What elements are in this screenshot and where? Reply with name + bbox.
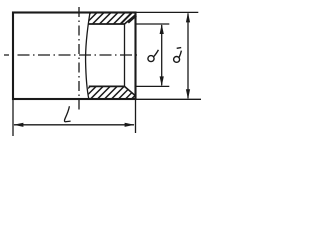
L extension line right (135, 99, 137, 133)
label L (64, 106, 70, 121)
L extension line left (12, 99, 14, 136)
d arrow down (160, 76, 164, 86)
break line (local section boundary) (86, 13, 90, 100)
chamfer edge (cone/cylinder intersection) (124, 24, 126, 86)
axis centerline (4, 54, 139, 56)
d1 dimension line (187, 13, 189, 98)
L dimension line (14, 124, 134, 126)
dark hatch wedge near top chamfer (128, 15, 136, 22)
d arrow up (160, 24, 164, 34)
d1 arrow down (186, 89, 190, 99)
d extension line bottom (137, 85, 170, 87)
bore top edge (89, 23, 125, 25)
bore bottom edge (89, 85, 125, 87)
part outline (13, 13, 136, 100)
bottom wall hatching (76, 86, 145, 101)
label d1 subscript 1 (177, 47, 182, 50)
d1 extension line bottom (136, 98, 202, 100)
top wall hatching (78, 11, 146, 26)
bottom chamfer diagonal (125, 86, 136, 95)
d1 extension line top (136, 11, 199, 13)
L arrow left (13, 123, 23, 127)
d1 arrow up (186, 12, 190, 22)
L arrow right (125, 123, 135, 127)
label d1 (174, 57, 180, 63)
vertical dash-dot line (78, 7, 80, 113)
d dimension line (161, 25, 163, 85)
top chamfer diagonal (125, 15, 136, 24)
label d (148, 56, 154, 62)
d extension line top (137, 23, 170, 25)
